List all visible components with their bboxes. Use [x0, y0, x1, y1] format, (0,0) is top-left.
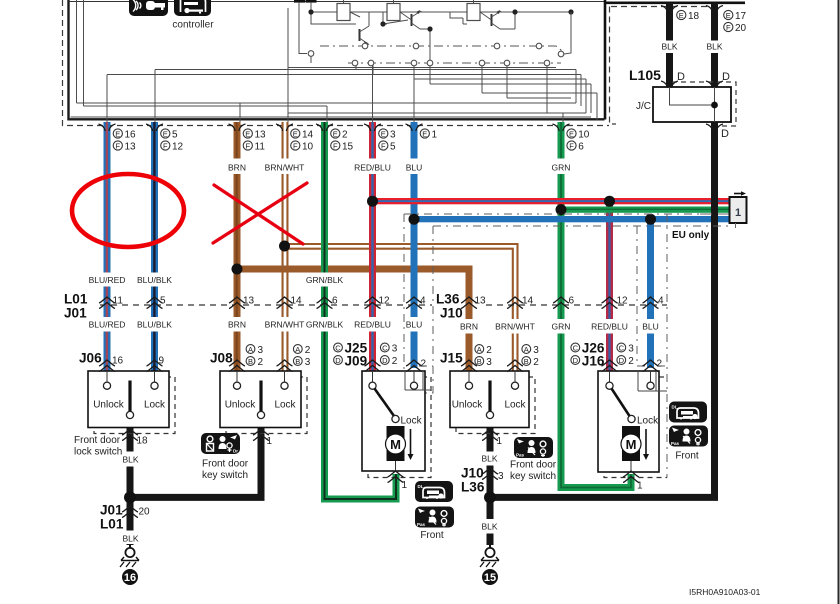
gap GRN upper label	[556, 159, 566, 175]
J08 pin letters right (A2/B3)	[293, 345, 310, 368]
svg-text:BLU: BLU	[406, 163, 423, 173]
svg-text:I5RH0A910A03-01: I5RH0A910A03-01	[689, 587, 761, 597]
svg-text:RED/BLU: RED/BLU	[354, 163, 391, 173]
svg-text:16: 16	[125, 129, 137, 140]
svg-text:A: A	[524, 345, 529, 354]
connector L01 pin 13 chevron	[229, 297, 245, 309]
gap RED/BLU upper label	[368, 159, 378, 175]
wire BLU/RED (E16/F13 to J06 Unlock)	[104, 122, 111, 371]
svg-text:20: 20	[735, 23, 747, 34]
J08 pin 1 chevron	[253, 429, 269, 441]
svg-text:BLU: BLU	[642, 322, 659, 332]
svg-text:GRN/BLK: GRN/BLK	[306, 320, 344, 330]
svg-text:lock switch: lock switch	[74, 447, 122, 458]
J06 pin 16 chevron	[99, 360, 115, 372]
svg-text:BLK: BLK	[481, 454, 497, 464]
svg-text:6: 6	[569, 296, 575, 307]
svg-text:BLU/BLK: BLU/BLK	[137, 320, 172, 330]
connector J01/L01 pin 20 chevron	[122, 506, 138, 518]
svg-text:D: D	[722, 71, 730, 83]
svg-text:D: D	[382, 356, 388, 365]
svg-text:BLU: BLU	[406, 320, 423, 330]
svg-text:2: 2	[305, 345, 311, 356]
svg-text:L36: L36	[461, 480, 485, 495]
junction dot BRN	[232, 264, 243, 275]
svg-text:2: 2	[533, 357, 539, 368]
wire BRN/WHT branch horizontal (to L36 pin 14)	[285, 244, 518, 371]
svg-text:12: 12	[379, 296, 391, 307]
wire BLK J06 pin18 to ground 16	[127, 428, 134, 546]
dash line B contact circles	[352, 60, 550, 66]
connector L01/J01 dashed line	[100, 304, 432, 306]
svg-text:C: C	[619, 343, 625, 352]
connector L01 pin 4 chevron	[406, 297, 422, 309]
svg-text:E: E	[115, 129, 120, 138]
gap BRN upper label	[232, 159, 242, 175]
svg-text:A: A	[248, 345, 253, 354]
labels E16/F13	[113, 129, 136, 152]
svg-text:RED/BLU: RED/BLU	[354, 320, 391, 330]
svg-text:3: 3	[258, 345, 264, 356]
svg-text:16: 16	[124, 572, 136, 584]
gap BLK label J15	[485, 452, 495, 466]
bus GRN	[561, 207, 730, 213]
J25/J09 door lock motor	[362, 371, 431, 478]
EU dashed corridor J25 left	[403, 214, 405, 371]
connector L36 pin 6 chevron	[553, 297, 569, 309]
svg-text:Unlock: Unlock	[225, 400, 257, 411]
svg-text:J16: J16	[582, 354, 605, 369]
svg-text:M: M	[390, 437, 401, 452]
svg-text:J10: J10	[461, 466, 484, 481]
svg-text:10: 10	[578, 129, 590, 140]
connector 1 box	[730, 191, 747, 228]
svg-text:15: 15	[342, 141, 354, 152]
svg-text:M: M	[626, 437, 637, 452]
svg-text:12: 12	[617, 296, 629, 307]
gap BLU/BLK above-row label	[150, 273, 160, 287]
gap BLK label J06	[125, 452, 135, 467]
svg-text:C: C	[573, 343, 579, 352]
connector L01 pin 14 chevron	[277, 297, 293, 309]
wire BLU 2 (bus to J26 pin2 EU)	[647, 219, 654, 368]
svg-text:BLK: BLK	[706, 42, 722, 52]
svg-text:B: B	[524, 357, 529, 366]
J15 pin A2 chevron	[461, 360, 477, 372]
gap BRN/WHT upper label	[280, 159, 290, 175]
svg-text:9: 9	[159, 356, 165, 367]
svg-text:C: C	[335, 343, 341, 352]
controller icon: keyless transmitter	[129, 0, 168, 16]
relay coil 1	[337, 0, 360, 21]
svg-text:BLK: BLK	[481, 522, 497, 532]
svg-text:controller: controller	[172, 20, 214, 31]
J26/J16 labels	[571, 341, 663, 370]
mechanical dash line A	[320, 46, 561, 54]
top-right module bottom edge	[605, 1, 746, 4]
svg-text:J06: J06	[79, 351, 102, 366]
collar BLK E17 top	[706, 6, 723, 13]
svg-text:2: 2	[421, 359, 427, 370]
svg-text:6: 6	[332, 296, 338, 307]
junction dot RED/BLU bus start	[367, 196, 378, 207]
gap BLU/RED above-row label	[102, 273, 112, 287]
svg-text:14: 14	[291, 296, 303, 307]
J08 pin letters left (A3/B2)	[246, 345, 263, 368]
svg-text:B: B	[248, 357, 253, 366]
gap GRN/BLK above-row label	[320, 273, 330, 287]
svg-text:11: 11	[113, 296, 124, 307]
svg-text:15: 15	[484, 572, 496, 584]
svg-text:BLK: BLK	[661, 42, 677, 52]
svg-text:18: 18	[688, 11, 700, 22]
svg-text:4: 4	[658, 296, 664, 307]
collar BLK E18 top	[661, 6, 678, 13]
J26 pin 1 chevron	[623, 471, 639, 483]
svg-text:F: F	[726, 23, 731, 32]
connector L01 pin 6 chevron	[317, 297, 333, 309]
collar BRN/WHT at controller exit	[276, 124, 293, 131]
labels E2/F15	[331, 129, 354, 152]
internal power stub 2	[306, 0, 357, 24]
label E1	[420, 129, 437, 140]
svg-text:16: 16	[112, 356, 124, 367]
svg-text:BRN/WHT: BRN/WHT	[265, 163, 305, 173]
svg-text:13: 13	[475, 296, 487, 307]
J06 pin 18 chevron	[122, 429, 138, 441]
connector J10/L36 pin 3 chevron	[482, 468, 498, 480]
svg-text:4: 4	[420, 296, 426, 307]
svg-text:D: D	[619, 356, 625, 365]
labels E10/F6	[567, 129, 590, 152]
L105 dashed left edge	[610, 7, 617, 125]
collar BLU at controller exit	[406, 124, 423, 131]
J/C junction box L105	[653, 87, 731, 122]
svg-text:GRN/BLK: GRN/BLK	[306, 275, 344, 285]
wire BRN branch horizontal (to L36 pin 13)	[237, 269, 469, 371]
EU dashed upper	[404, 213, 714, 215]
svg-text:key switch: key switch	[202, 470, 248, 481]
svg-text:F: F	[381, 141, 386, 150]
svg-text:F: F	[569, 141, 574, 150]
internal wire vertical B	[83, 0, 85, 106]
wire BLU (E1 to J25 pin2 EU)	[411, 122, 418, 368]
wire BRN (E13/F11 to J08 Unlock)	[234, 122, 241, 371]
controller outer dashed box	[63, 0, 610, 126]
svg-text:6: 6	[578, 141, 584, 152]
svg-text:1: 1	[402, 480, 408, 491]
controller inner box top edge	[69, 1, 605, 3]
connector L36 pin 12 chevron	[602, 297, 618, 309]
labels E5/F12	[161, 129, 184, 152]
svg-text:D: D	[677, 71, 685, 83]
connector L01 pin 11 chevron	[99, 297, 115, 309]
svg-text:J01: J01	[100, 503, 123, 518]
svg-text:EU only: EU only	[672, 230, 710, 241]
J26 pin 2 chevron	[643, 360, 659, 372]
svg-text:Lock: Lock	[274, 400, 296, 411]
svg-text:2: 2	[258, 357, 264, 368]
EU dashed corridor J25 right	[404, 226, 433, 393]
svg-text:Lock: Lock	[637, 416, 659, 427]
J08 pin A2 chevron	[277, 360, 293, 372]
svg-text:1: 1	[432, 129, 438, 140]
svg-text:E: E	[679, 11, 684, 20]
svg-text:B: B	[477, 357, 482, 366]
svg-text:3: 3	[486, 357, 492, 368]
svg-text:5: 5	[390, 141, 396, 152]
J25 door lock icon	[415, 481, 453, 502]
svg-text:20: 20	[139, 507, 151, 518]
wire BLK J15 pin1 to ground 15	[487, 428, 494, 546]
svg-text:B: B	[295, 357, 300, 366]
wire BRN/WHT (E14/F10 to J08 Lock)	[282, 122, 289, 371]
svg-text:3: 3	[533, 345, 539, 356]
collar BLK trunk at J/C entry	[706, 81, 723, 88]
svg-text:BLK: BLK	[122, 455, 138, 465]
J26 pin C3 chevron	[602, 360, 618, 372]
J25 pin 2 chevron	[406, 360, 422, 372]
J26 key switch icon	[669, 426, 708, 447]
svg-text:D: D	[721, 128, 729, 140]
svg-text:BRN: BRN	[460, 322, 478, 332]
wire BLK J08 pin1 elbow	[130, 428, 261, 498]
collar BLU/BLK at controller exit	[146, 124, 163, 131]
gaps below-row labels group 1	[102, 317, 112, 332]
dash line A contact circles	[362, 43, 564, 57]
svg-text:E: E	[245, 129, 250, 138]
internal top bus	[311, 11, 571, 13]
collar BRN at controller exit	[229, 124, 246, 131]
connector L36 pin 14 chevron	[507, 297, 523, 309]
svg-text:F: F	[163, 141, 168, 150]
svg-text:E: E	[381, 129, 386, 138]
EU dashed corridor J26 left	[637, 226, 667, 366]
svg-text:E: E	[726, 11, 731, 20]
leader line to connector 1	[700, 213, 734, 215]
junction dot GRN bus	[556, 204, 567, 215]
svg-text:E: E	[569, 129, 574, 138]
controller inner solid box	[69, 0, 605, 119]
J25 pin C3 chevron	[365, 360, 381, 372]
svg-text:1: 1	[637, 481, 643, 492]
svg-text:12: 12	[172, 141, 184, 152]
svg-text:Lock: Lock	[401, 416, 423, 427]
svg-text:2: 2	[628, 356, 634, 367]
wire BLU/BLK (E5/F12 to J06 Lock)	[151, 122, 158, 371]
connector L36 pin 4 chevron	[643, 297, 659, 309]
J15 key switch icon	[514, 437, 553, 458]
bus BLU	[414, 216, 730, 222]
svg-text:Unlock: Unlock	[452, 400, 484, 411]
svg-text:2: 2	[486, 345, 492, 356]
gap BLU upper label	[409, 159, 419, 175]
svg-text:BRN/WHT: BRN/WHT	[495, 322, 535, 332]
relay coil 3	[450, 0, 480, 24]
svg-text:GRN: GRN	[552, 163, 571, 173]
BLK wire E17/F20 (trunk top)	[711, 3, 718, 87]
collar BLK trunk below J/C	[706, 124, 723, 131]
svg-text:5: 5	[160, 296, 166, 307]
transistor Q1	[360, 12, 370, 46]
svg-text:D: D	[335, 356, 341, 365]
label E18	[677, 10, 700, 21]
J08 pin A3 chevron	[229, 360, 245, 372]
svg-text:J10: J10	[440, 306, 463, 321]
labels E13/F11	[243, 129, 266, 152]
svg-text:10: 10	[302, 141, 314, 152]
svg-text:11: 11	[255, 141, 266, 152]
labels E3/F5	[379, 129, 396, 152]
svg-text:D: D	[573, 356, 579, 365]
J15 pin letters right (A3/B2)	[522, 345, 539, 368]
svg-text:BRN/WHT: BRN/WHT	[265, 320, 305, 330]
top-right module dashed edge	[611, 6, 711, 8]
svg-text:1: 1	[735, 207, 741, 219]
svg-text:3: 3	[628, 344, 634, 355]
svg-text:L01: L01	[100, 517, 124, 532]
BLK trunk wire (J/C down to bottom bus)	[490, 122, 715, 497]
svg-text:BLU/RED: BLU/RED	[89, 275, 126, 285]
wire GRN (E10/F6 to J26 pin1, elbow at bottom)	[561, 122, 631, 488]
svg-text:L105: L105	[629, 67, 661, 83]
J08 front door key switch	[220, 371, 307, 434]
svg-text:17: 17	[735, 11, 747, 22]
J08 key switch icon	[201, 433, 240, 454]
svg-text:13: 13	[125, 141, 137, 152]
connector L01 pin 5 chevron	[147, 297, 163, 309]
internal drop wires to connector pins	[106, 75, 108, 123]
transistor Q3	[480, 10, 515, 29]
connector L36 pin 13 chevron	[461, 297, 477, 309]
J15 pin letters left (A2/B3)	[475, 345, 492, 368]
labels E14/F10	[291, 129, 314, 152]
svg-text:BLU/RED: BLU/RED	[89, 320, 126, 330]
svg-text:5: 5	[172, 129, 178, 140]
internal routing horizontals	[77, 102, 577, 104]
svg-text:14: 14	[302, 129, 314, 140]
svg-text:Front door: Front door	[74, 435, 121, 446]
svg-text:J/C: J/C	[636, 101, 651, 112]
wire RED/BLU (E3/F5 to J25)	[369, 122, 376, 371]
junction dot BLK right	[484, 491, 496, 503]
svg-text:Front door: Front door	[202, 459, 249, 470]
J26 door lock icon	[669, 402, 707, 423]
ground 16	[120, 545, 139, 585]
svg-text:key switch: key switch	[510, 471, 556, 482]
collar BLK at J/C entry	[661, 81, 678, 88]
connector L36/J10 dashed line	[486, 304, 667, 306]
svg-text:L36: L36	[436, 292, 460, 307]
svg-text:3: 3	[392, 344, 398, 355]
svg-text:Front: Front	[420, 530, 444, 541]
relay coil 2	[383, 0, 408, 24]
svg-text:Front door: Front door	[510, 460, 557, 471]
svg-text:J09: J09	[345, 354, 368, 369]
bus RED/BLU	[373, 198, 731, 204]
junction dot BRN/WHT	[279, 241, 290, 252]
collar BLU/RED at controller exit	[99, 124, 116, 131]
svg-text:2: 2	[657, 359, 663, 370]
EU dashed corridor J26 right / J26 shell right	[666, 214, 668, 478]
BLK trunk over buses	[711, 122, 718, 498]
svg-text:J08: J08	[210, 351, 233, 366]
transistor Q2	[400, 10, 430, 65]
svg-text:13: 13	[255, 129, 267, 140]
svg-text:Lock: Lock	[144, 400, 166, 411]
J15 pin 1 chevron	[482, 429, 498, 441]
J25 pin 1 chevron	[388, 471, 404, 483]
svg-text:E: E	[163, 129, 168, 138]
svg-text:BRN: BRN	[228, 163, 246, 173]
J26/J16 door lock motor	[598, 371, 667, 478]
gap BLK label J10/L36 lower	[485, 519, 495, 534]
svg-text:A: A	[295, 345, 300, 354]
BLK wire E18 (to J/C)	[666, 3, 673, 94]
wire RED/BLU 2 (bus to J26)	[606, 201, 613, 371]
gap BLK label J01/L01	[125, 531, 135, 545]
svg-text:3: 3	[498, 471, 504, 482]
svg-text:L01: L01	[64, 292, 88, 307]
svg-text:GRN: GRN	[552, 322, 571, 332]
svg-text:BRN: BRN	[228, 320, 246, 330]
EU dashed lower	[433, 225, 728, 227]
controller inner box right thick edge	[604, 0, 607, 120]
J15 pin A3 chevron	[507, 360, 523, 372]
svg-text:14: 14	[522, 296, 534, 307]
collar GRN at controller exit	[553, 124, 570, 131]
svg-text:E: E	[293, 129, 298, 138]
controller icon: door with key	[174, 0, 211, 16]
svg-text:2: 2	[342, 129, 348, 140]
mechanical dash line B	[348, 62, 561, 64]
internal junction dots	[308, 9, 313, 14]
ground 15	[480, 545, 499, 585]
internal power stub 1	[294, 0, 307, 54]
svg-text:E: E	[333, 129, 338, 138]
J06 front door lock switch	[88, 371, 175, 434]
svg-text:F: F	[116, 141, 121, 150]
J25 key switch icon	[415, 507, 454, 528]
internal right-side bundle	[575, 70, 577, 104]
svg-text:Unlock: Unlock	[93, 400, 125, 411]
svg-text:Front: Front	[675, 451, 699, 462]
svg-text:C: C	[382, 343, 388, 352]
junction dot BLU 2	[645, 214, 656, 225]
gaps below-row labels group 2	[464, 319, 474, 334]
svg-text:1: 1	[497, 436, 503, 447]
svg-text:RED/BLU: RED/BLU	[591, 322, 628, 332]
red circle annotation	[72, 174, 184, 247]
wire GRN/BLK (E2/F15 to J25 pin1, elbow at bottom)	[325, 122, 397, 499]
junction dot BLU bus start	[409, 214, 420, 225]
svg-text:BLU/BLK: BLU/BLK	[137, 275, 172, 285]
J/C dashed shell	[672, 82, 736, 126]
svg-text:J15: J15	[440, 351, 463, 366]
svg-text:Lock: Lock	[504, 400, 526, 411]
internal solid bus line	[288, 67, 557, 69]
svg-text:F: F	[293, 141, 298, 150]
J25/J09 labels	[334, 341, 427, 370]
contact circle on stub1	[308, 51, 314, 57]
junction dot RED/BLU 2	[604, 196, 615, 207]
svg-text:J01: J01	[64, 306, 87, 321]
svg-text:E: E	[422, 129, 427, 138]
collar GRN/BLK at controller exit	[316, 124, 333, 131]
svg-text:13: 13	[243, 296, 255, 307]
svg-text:1: 1	[267, 436, 273, 447]
svg-text:F: F	[333, 141, 338, 150]
